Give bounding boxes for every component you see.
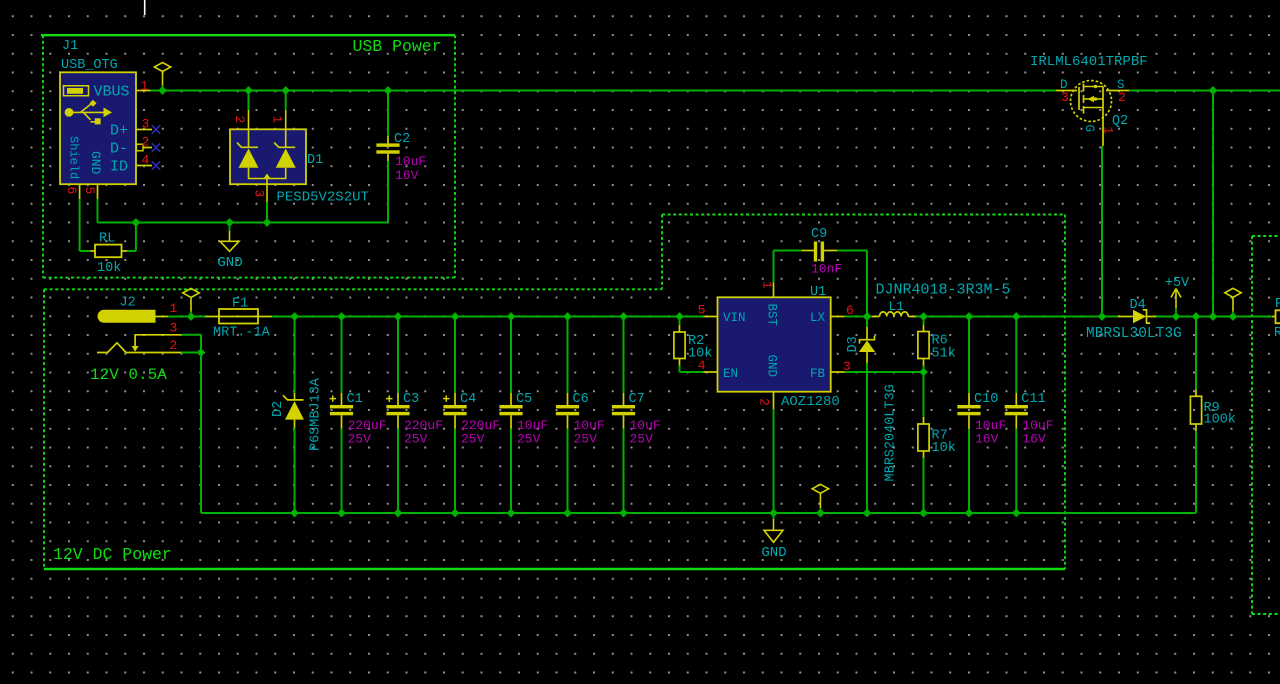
capacitor C11 — [1005, 393, 1028, 429]
wire +5V output rail — [1156, 316, 1272, 318]
wire J1 pin6 down — [79, 199, 81, 251]
connector J1 USB_OTG — [60, 72, 136, 184]
svg-text:25V: 25V — [348, 432, 372, 447]
resistor R7 — [918, 424, 929, 451]
schottky diode D4 MBRSL30LT3G — [1118, 310, 1156, 324]
junction bus C7 — [620, 313, 627, 320]
schottky diode D3 MBRS2040LT3G — [859, 327, 875, 363]
junction rail R6 — [920, 313, 927, 320]
capacitor C1 — [330, 393, 354, 429]
svg-text:GND: GND — [761, 545, 786, 561]
junction bus C3 — [394, 313, 401, 320]
wire bus to C4 — [454, 317, 456, 393]
wire C9 to LX node — [837, 251, 867, 317]
junction gnd rail D1 — [263, 219, 270, 226]
svg-text:MBRS2040LT3G: MBRS2040LT3G — [884, 384, 899, 481]
svg-text:1: 1 — [760, 281, 775, 289]
wire bus to D2 — [294, 317, 296, 393]
J1 pin 5 GND — [82, 151, 103, 199]
junction bus R2 — [676, 313, 683, 320]
svg-text:D1: D1 — [307, 153, 323, 168]
wire C10 to bottom bus — [968, 429, 970, 514]
wire J1 pin6 to RL — [80, 250, 91, 252]
wire rail to C10 — [968, 317, 970, 393]
wire LX node to D3 — [866, 317, 868, 328]
wire R9 to bottom bus — [1195, 431, 1197, 513]
junction bottom bus D2 — [291, 509, 298, 516]
svg-text:2: 2 — [757, 398, 772, 406]
svg-text:10uF: 10uF — [395, 154, 426, 169]
capacitor C9 bootstrap — [802, 242, 837, 262]
U1 pin 1 BST — [760, 281, 779, 327]
svg-text:AOZ1280: AOZ1280 — [781, 394, 840, 410]
U1 pin 4 EN — [698, 358, 738, 381]
wire LX node to L1 — [867, 316, 872, 318]
svg-text:D+: D+ — [110, 123, 128, 140]
svg-text:10nF: 10nF — [811, 262, 842, 277]
wire J2 pin2 to corner — [181, 352, 201, 354]
U1 pin 6 LX — [810, 303, 854, 325]
svg-text:51k: 51k — [932, 347, 956, 362]
wire bus to C5 — [510, 317, 512, 393]
svg-text:1: 1 — [270, 116, 285, 124]
svg-text:D3: D3 — [846, 336, 861, 352]
svg-text:C4: C4 — [460, 392, 476, 407]
right section partial component — [1272, 310, 1280, 323]
junction bottom bus C10 — [965, 509, 972, 516]
capacitor C5 — [499, 393, 522, 429]
svg-text:C10: C10 — [974, 392, 998, 407]
svg-text:C7: C7 — [629, 392, 645, 407]
svg-text:C1: C1 — [347, 392, 363, 407]
wire J1 pin5 to gnd rail — [97, 199, 99, 223]
no-connect X on D- — [152, 143, 160, 151]
svg-text:D4: D4 — [1130, 298, 1146, 313]
svg-text:BST: BST — [765, 304, 779, 327]
svg-text:12V 0.5A: 12V 0.5A — [90, 366, 167, 384]
svg-text:25V: 25V — [404, 432, 428, 447]
junction bottom bus C11 — [1013, 509, 1020, 516]
wire R6 to FB node — [923, 366, 925, 373]
junction bus C6 — [564, 313, 571, 320]
svg-text:MRT.-1A: MRT.-1A — [213, 326, 271, 341]
svg-text:+5V: +5V — [1165, 276, 1190, 291]
U1 pin 5 VIN — [698, 303, 746, 326]
svg-text:C11: C11 — [1021, 392, 1045, 407]
svg-text:GND: GND — [765, 355, 779, 378]
resistor RL — [90, 245, 127, 258]
junction bottom bus C3 — [394, 509, 401, 516]
svg-text:IRLML6401TRPBF: IRLML6401TRPBF — [1030, 54, 1148, 70]
capacitor C7 — [612, 393, 635, 429]
J1 pin 4 ID — [110, 153, 152, 176]
svg-text:VBUS: VBUS — [93, 84, 129, 101]
svg-text:D-: D- — [110, 141, 128, 158]
junction bus C4 — [451, 313, 458, 320]
power flag diamond gnd — [812, 484, 828, 513]
wire VBUS to C2 — [387, 91, 389, 137]
ground symbol GND usb — [220, 223, 239, 252]
wire C4 to bottom bus — [454, 429, 456, 514]
wire bus to R2 — [679, 317, 681, 326]
wire RL to gnd rail — [127, 223, 136, 252]
svg-text:2: 2 — [142, 135, 150, 150]
svg-text:3: 3 — [142, 117, 150, 132]
junction gnd rail RL — [132, 219, 139, 226]
svg-text:25V: 25V — [630, 432, 654, 447]
wire rail to R6 — [923, 317, 925, 326]
12V DC Power section box — [44, 215, 1065, 570]
resistor R2 — [674, 332, 685, 359]
capacitor C2 — [376, 136, 399, 161]
svg-text:C5: C5 — [516, 392, 532, 407]
svg-text:FB: FB — [810, 367, 826, 381]
junction bus C1 — [338, 313, 345, 320]
capacitor C3 — [386, 393, 410, 429]
wire VBUS main horizontal — [151, 90, 1057, 92]
svg-text:G: G — [1082, 125, 1096, 133]
connector J2 barrel jack — [97, 310, 181, 352]
regulator U1 AOZ1280 — [718, 297, 831, 391]
svg-text:3: 3 — [1061, 90, 1069, 105]
svg-text:D2: D2 — [271, 401, 286, 417]
svg-text:6: 6 — [64, 187, 79, 195]
resistor R9 — [1190, 396, 1201, 424]
junction bus C5 — [507, 313, 514, 320]
svg-text:ID: ID — [110, 159, 128, 176]
svg-text:GND: GND — [88, 151, 103, 175]
svg-text:Q2: Q2 — [1112, 114, 1128, 129]
svg-text:12V DC Power: 12V DC Power — [53, 545, 172, 564]
svg-text:J2: J2 — [120, 296, 136, 311]
wire C5 to bottom bus — [510, 429, 512, 514]
svg-text:C6: C6 — [573, 392, 589, 407]
wire C7 to bottom bus — [623, 429, 625, 514]
wire L1 to output rail — [916, 316, 1118, 318]
wire FB node to R7 — [923, 372, 925, 417]
junction rail flag 5V — [1229, 313, 1236, 320]
junction bottom bus R7 — [920, 509, 927, 516]
svg-text:3: 3 — [252, 190, 267, 198]
wire D1 pin3 to gnd rail — [266, 202, 268, 223]
wire U1 GND down — [773, 409, 775, 519]
junction rail C11 — [1013, 313, 1020, 320]
TVS diode D1 PESD5V2S2UT — [230, 110, 306, 202]
wire rail to R9 — [1195, 317, 1197, 390]
no-connect X on D+ — [152, 125, 160, 133]
svg-text:25V: 25V — [574, 432, 598, 447]
junction bottom bus C4 — [451, 509, 458, 516]
power symbol +5V — [1171, 289, 1181, 317]
wire J2 pin1 to fuse — [168, 316, 205, 318]
svg-text:2: 2 — [1118, 90, 1126, 105]
wire VBUS to Q2 source side — [1129, 90, 1280, 92]
junction VBUS D1 pin2 — [245, 87, 252, 94]
TVS diode D2 P6SMBJ13A — [283, 393, 304, 428]
svg-text:16V: 16V — [1022, 432, 1046, 447]
junction bottom bus D3 — [863, 509, 870, 516]
right section box (partial) — [1252, 236, 1280, 614]
svg-text:25V: 25V — [461, 432, 485, 447]
capacitor C4 — [443, 393, 467, 429]
svg-text:C9: C9 — [811, 227, 827, 242]
junction VBUS C2 — [384, 87, 391, 94]
wire bus to C1 — [341, 317, 343, 393]
wire C11 to bottom bus — [1015, 429, 1017, 514]
svg-text:F1: F1 — [232, 297, 248, 312]
wire usb gnd rail — [98, 222, 389, 224]
svg-text:2: 2 — [170, 338, 178, 353]
wire C2 to gnd rail — [387, 161, 389, 223]
wire bus to C3 — [397, 317, 399, 393]
wire R7 to bottom bus — [923, 458, 925, 513]
J1 pin 2 D- — [110, 135, 152, 158]
svg-text:VIN: VIN — [723, 311, 746, 325]
junction VBUS D1 pin1 — [282, 87, 289, 94]
svg-text:C3: C3 — [403, 392, 419, 407]
wire C1 to bottom bus — [341, 429, 343, 514]
junction bottom bus flag — [817, 509, 824, 516]
junction J2 pin2/pin3 — [197, 349, 204, 356]
wire bus to C7 — [623, 317, 625, 393]
inductor L1 DJNR4018-3R3M-5 — [872, 312, 916, 317]
junction bottom bus C1 — [338, 509, 345, 516]
wire BST to C9 — [774, 251, 803, 283]
J1 pin 3 D+ — [110, 117, 152, 140]
wire Q2 source riser — [1212, 91, 1214, 317]
junction rail Q2 source riser — [1209, 313, 1216, 320]
power flag diamond 12V — [183, 288, 199, 316]
junction rail Q2 gate — [1098, 313, 1105, 320]
svg-text:10k: 10k — [932, 441, 956, 456]
junction bottom bus C7 — [620, 509, 627, 516]
wire LX to node — [845, 316, 867, 318]
wire D1 pin2 to VBUS — [248, 91, 250, 111]
junction bottom bus C6 — [564, 509, 571, 516]
svg-text:USB Power: USB Power — [353, 37, 442, 56]
wire C3 to bottom bus — [397, 429, 399, 514]
J1 pin 1 VBUS — [93, 79, 150, 101]
wire bus to C6 — [567, 317, 569, 393]
junction FB divider — [920, 368, 927, 375]
svg-text:5: 5 — [698, 303, 706, 318]
wire D2 to bottom bus — [294, 428, 296, 514]
wire D1 pin1 to VBUS — [285, 91, 287, 111]
USB Power section box — [41, 35, 455, 277]
svg-text:Shield: Shield — [67, 136, 81, 179]
svg-text:16V: 16V — [395, 168, 419, 183]
svg-text:LX: LX — [810, 311, 826, 325]
svg-text:5: 5 — [82, 187, 97, 195]
junction bottom bus C5 — [507, 509, 514, 516]
U1 pin 2 GND — [757, 355, 779, 410]
svg-text:1: 1 — [170, 301, 178, 316]
svg-text:USB_OTG: USB_OTG — [61, 58, 118, 73]
svg-text:P: P — [1275, 297, 1280, 312]
cursor — [144, 0, 146, 15]
wire FB to divider — [845, 371, 924, 373]
resistor R6 — [918, 332, 929, 359]
svg-text:RL: RL — [99, 232, 115, 247]
junction VBUS at flag — [159, 87, 166, 94]
power flag diamond — [154, 63, 170, 91]
U1 pin 3 FB — [810, 359, 851, 381]
svg-text:4: 4 — [142, 153, 150, 168]
svg-text:PESD5V2S2UT: PESD5V2S2UT — [277, 190, 369, 206]
svg-text:EN: EN — [723, 367, 738, 381]
wire C6 to bottom bus — [567, 429, 569, 514]
svg-text:4: 4 — [698, 358, 706, 373]
svg-text:R: R — [1274, 326, 1280, 341]
junction LX node — [863, 313, 870, 320]
svg-text:1: 1 — [141, 79, 149, 94]
wire Q2 gate riser — [1101, 146, 1103, 317]
wire J2 pin3 bend — [181, 335, 201, 353]
svg-text:3: 3 — [170, 321, 178, 336]
junction rail R9 — [1192, 313, 1199, 320]
svg-text:10k: 10k — [97, 261, 121, 276]
svg-text:GND: GND — [217, 255, 242, 271]
junction bus D2 — [291, 313, 298, 320]
capacitor C6 — [556, 393, 579, 429]
capacitor C10 — [957, 393, 980, 429]
svg-text:L1: L1 — [889, 299, 905, 314]
junction VBUS source riser — [1209, 87, 1216, 94]
junction rail C10 — [965, 313, 972, 320]
svg-text:100k: 100k — [1204, 413, 1236, 428]
svg-text:MBRSL30LT3G: MBRSL30LT3G — [1086, 326, 1182, 342]
wire bottom gnd bus — [201, 512, 1196, 514]
wire left riser to bottom bus — [200, 353, 202, 514]
wire rail to C11 — [1015, 317, 1017, 393]
wire main 12V bus to VIN — [272, 316, 704, 318]
svg-text:U1: U1 — [810, 285, 826, 300]
transistor Q2 IRLML6401TRPBF — [1056, 81, 1129, 147]
junction rail +5V — [1172, 313, 1179, 320]
no-connect X on ID — [152, 161, 160, 169]
wire D3 to bottom bus — [866, 363, 868, 513]
svg-text:2: 2 — [232, 116, 247, 124]
svg-text:C2: C2 — [394, 132, 410, 147]
svg-text:P6SMBJ13A: P6SMBJ13A — [309, 377, 324, 451]
junction 12V input flag — [187, 313, 194, 320]
junction bottom bus U1 GND — [770, 509, 777, 516]
wire R2 to EN — [680, 366, 704, 373]
junction gnd rail GND symbol — [226, 219, 233, 226]
fuse F1 MRT.-1A — [205, 309, 272, 324]
ground symbol GND main — [764, 519, 783, 542]
svg-text:DJNR4018-3R3M-5: DJNR4018-3R3M-5 — [876, 282, 1011, 299]
power flag diamond 5V — [1225, 288, 1241, 316]
svg-text:J1: J1 — [62, 39, 78, 54]
J1 pin 6 Shield — [64, 136, 81, 199]
svg-text:16V: 16V — [975, 432, 999, 447]
svg-text:25V: 25V — [517, 432, 541, 447]
